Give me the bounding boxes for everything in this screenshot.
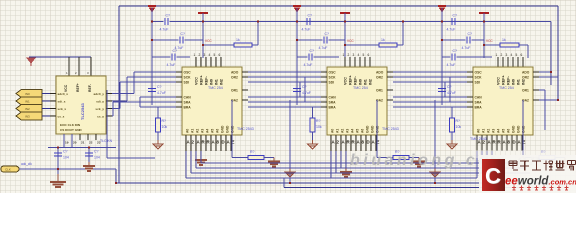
svg-text:5: 5	[516, 53, 518, 57]
svg-text:VCC: VCC	[497, 77, 501, 85]
svg-text:4: 4	[511, 53, 513, 57]
svg-text:TMC 2543: TMC 2543	[382, 127, 399, 131]
svg-text:TMC 254: TMC 254	[208, 86, 223, 90]
svg-text:sdi_x: sdi_x	[58, 100, 66, 104]
svg-text:D: D	[222, 140, 225, 145]
svg-text:22: 22	[89, 141, 93, 145]
svg-text:REF-: REF-	[88, 84, 92, 92]
svg-text:VCC: VCC	[64, 84, 68, 92]
svg-text:2: 2	[348, 53, 350, 57]
svg-text:OR2: OR2	[231, 76, 238, 80]
svg-text:A4: A4	[206, 129, 210, 133]
svg-text:A3: A3	[492, 129, 496, 133]
svg-text:A3: A3	[346, 129, 350, 133]
svg-text:D: D	[513, 140, 516, 145]
svg-text:REF+: REF+	[200, 74, 204, 85]
svg-text:C?: C?	[310, 49, 315, 53]
svg-text:GND: GND	[371, 125, 375, 133]
svg-text:A1: A1	[336, 129, 340, 133]
svg-text:CLK: CLK	[5, 168, 11, 172]
svg-text:1k: 1k	[236, 38, 240, 42]
svg-text:GND: GND	[517, 125, 521, 133]
svg-text:sck_y: sck_y	[95, 107, 104, 111]
svg-text:OR1: OR1	[376, 89, 383, 93]
svg-text:4.7uF: 4.7uF	[447, 91, 456, 95]
svg-text:A5: A5	[211, 129, 215, 133]
svg-text:A6: A6	[361, 129, 365, 133]
svg-text:adc0_y: adc0_y	[94, 92, 105, 96]
svg-text:C?: C?	[308, 14, 313, 18]
svg-text:TMC 254: TMC 254	[353, 86, 368, 90]
svg-text:OSC: OSC	[329, 71, 337, 75]
svg-text:C?: C?	[325, 32, 330, 36]
svg-text:A3: A3	[201, 129, 205, 133]
svg-text:VCC: VCC	[205, 39, 212, 43]
svg-text:21: 21	[81, 141, 85, 145]
svg-text:TMC 2543: TMC 2543	[470, 137, 487, 141]
svg-text:IN1: IN1	[517, 79, 521, 85]
svg-text:3: 3	[506, 53, 508, 57]
svg-text:R?: R?	[162, 119, 167, 123]
svg-text:VCC: VCC	[195, 77, 199, 85]
svg-text:TLC2543: TLC2543	[80, 103, 85, 120]
svg-text:A5: A5	[502, 129, 506, 133]
svg-text:4.7uF: 4.7uF	[447, 28, 456, 32]
svg-text:C?: C?	[63, 150, 68, 154]
svg-text:adc0_x: adc0_x	[58, 92, 69, 96]
svg-text:1: 1	[496, 53, 498, 57]
svg-text:IN0: IN0	[512, 79, 516, 85]
svg-text:C?: C?	[157, 85, 162, 89]
svg-text:C?: C?	[302, 85, 307, 89]
svg-text:1: 1	[194, 53, 196, 57]
svg-text:A2: A2	[196, 129, 200, 133]
svg-text:104: 104	[63, 156, 69, 160]
svg-text:3: 3	[204, 53, 206, 57]
svg-text:D: D	[367, 140, 370, 145]
svg-text:OR2: OR2	[522, 76, 529, 80]
svg-text:IN2: IN2	[522, 79, 526, 85]
svg-text:R?: R?	[250, 150, 255, 154]
svg-text:4.7uF: 4.7uF	[302, 91, 311, 95]
svg-text:EOC CLK DIN: EOC CLK DIN	[60, 123, 81, 127]
svg-text:CAN: CAN	[184, 96, 192, 100]
svg-text:C?: C?	[447, 85, 452, 89]
svg-text:cs_x: cs_x	[58, 115, 65, 119]
svg-text:CAN: CAN	[329, 96, 337, 100]
svg-text:SRA: SRA	[475, 101, 483, 105]
svg-text:6: 6	[521, 53, 523, 57]
svg-text:REF-: REF-	[354, 75, 358, 85]
svg-text:IN2: IN2	[369, 79, 373, 85]
svg-text:1: 1	[343, 53, 345, 57]
svg-text:C?: C?	[468, 32, 473, 36]
svg-text:A0: A0	[186, 129, 190, 133]
svg-text:SRA: SRA	[184, 101, 192, 105]
svg-text:4.7uF: 4.7uF	[157, 91, 166, 95]
svg-text:GND: GND	[366, 125, 370, 133]
svg-text:4.7uF: 4.7uF	[319, 46, 328, 50]
svg-text:GND: GND	[221, 125, 225, 133]
svg-text:TMC 2543: TMC 2543	[237, 127, 254, 131]
svg-text:IN0: IN0	[25, 92, 30, 96]
svg-text:ADO: ADO	[376, 71, 384, 75]
svg-text:REF-: REF-	[507, 75, 511, 85]
svg-text:104: 104	[94, 156, 100, 160]
svg-text:OSC: OSC	[475, 71, 483, 75]
svg-text:REF-: REF-	[205, 75, 209, 85]
svg-text:adc_clk: adc_clk	[21, 162, 32, 166]
svg-text:5: 5	[363, 53, 365, 57]
svg-text:A2: A2	[487, 129, 491, 133]
svg-text:SCK: SCK	[475, 76, 483, 80]
svg-text:A4: A4	[497, 129, 501, 133]
svg-text:1k: 1k	[381, 38, 385, 42]
svg-text:IN1: IN1	[25, 100, 30, 104]
svg-text:4.7uF: 4.7uF	[167, 63, 176, 67]
svg-text:OR2: OR2	[376, 76, 383, 80]
svg-text:4: 4	[358, 53, 360, 57]
svg-text:IN0: IN0	[359, 79, 363, 85]
svg-text:C?: C?	[173, 49, 178, 53]
svg-text:4: 4	[209, 53, 211, 57]
svg-text:sdi_y: sdi_y	[96, 100, 104, 104]
svg-text:4.7uF: 4.7uF	[447, 63, 456, 67]
svg-text:TLC KN: TLC KN	[100, 139, 113, 143]
svg-text:20: 20	[73, 141, 77, 145]
svg-text:C?: C?	[181, 32, 186, 36]
svg-text:6: 6	[368, 53, 370, 57]
svg-text:IN0: IN0	[210, 79, 214, 85]
svg-text:BRA: BRA	[184, 106, 192, 110]
svg-text:CS DOUT GND: CS DOUT GND	[60, 128, 82, 132]
svg-text:SDI: SDI	[184, 81, 190, 85]
svg-text:SDI: SDI	[475, 81, 481, 85]
svg-text:1k: 1k	[502, 38, 506, 42]
svg-text:GND: GND	[512, 125, 516, 133]
svg-text:GND: GND	[226, 125, 230, 133]
svg-text:SRA: SRA	[329, 101, 337, 105]
svg-text:4.7uF: 4.7uF	[304, 63, 313, 67]
svg-text:A1: A1	[191, 129, 195, 133]
svg-text:IN1: IN1	[215, 79, 219, 85]
svg-text:BRA: BRA	[329, 106, 337, 110]
svg-text:SCK: SCK	[184, 76, 192, 80]
svg-text:OR1: OR1	[522, 89, 529, 93]
svg-text:SDI: SDI	[329, 81, 335, 85]
svg-text:REF+: REF+	[349, 74, 353, 85]
svg-text:C: C	[485, 163, 501, 188]
svg-text:IN2: IN2	[220, 79, 224, 85]
svg-text:IN3: IN3	[25, 115, 30, 119]
svg-text:R?: R?	[316, 119, 321, 123]
svg-text:A2: A2	[341, 129, 345, 133]
svg-text:3: 3	[353, 53, 355, 57]
svg-text:VCC: VCC	[347, 39, 354, 43]
svg-text:C?: C?	[453, 14, 458, 18]
svg-text:SCK: SCK	[329, 76, 337, 80]
svg-text:C?: C?	[94, 150, 99, 154]
svg-text:OSC: OSC	[184, 71, 192, 75]
svg-text:A5: A5	[356, 129, 360, 133]
svg-text:A0: A0	[477, 129, 481, 133]
svg-text:sck_x: sck_x	[58, 107, 67, 111]
svg-text:ADO: ADO	[522, 71, 530, 75]
svg-text:VCC: VCC	[344, 77, 348, 85]
svg-text:C?: C?	[453, 49, 458, 53]
svg-text:IN2: IN2	[25, 107, 30, 111]
svg-text:eeworld.com.cn: eeworld.com.cn	[505, 176, 576, 188]
svg-text:A6: A6	[507, 129, 511, 133]
svg-text:REF+: REF+	[76, 83, 80, 92]
svg-text:4.7uF: 4.7uF	[462, 46, 471, 50]
svg-text:CAN: CAN	[475, 96, 483, 100]
svg-text:R?: R?	[456, 119, 461, 123]
svg-text:A1: A1	[482, 129, 486, 133]
svg-text:VCC: VCC	[486, 39, 493, 43]
svg-text:2: 2	[199, 53, 201, 57]
svg-text:19: 19	[65, 141, 69, 145]
svg-text:10k: 10k	[162, 125, 168, 129]
svg-text:OR1: OR1	[231, 89, 238, 93]
svg-text:5: 5	[214, 53, 216, 57]
svg-text:cs_y: cs_y	[97, 115, 104, 119]
svg-text:IN1: IN1	[364, 79, 368, 85]
svg-text:4.7uF: 4.7uF	[160, 28, 169, 32]
svg-text:6: 6	[219, 53, 221, 57]
svg-text:ADO: ADO	[231, 71, 239, 75]
svg-text:2: 2	[501, 53, 503, 57]
svg-text:10k: 10k	[316, 125, 322, 129]
svg-text:C?: C?	[166, 14, 171, 18]
svg-text:TMC 254: TMC 254	[499, 86, 514, 90]
svg-text:A0: A0	[331, 129, 335, 133]
svg-text:REF+: REF+	[502, 74, 506, 85]
svg-text:A4: A4	[351, 129, 355, 133]
svg-text:BRA: BRA	[475, 106, 483, 110]
svg-text:A6: A6	[216, 129, 220, 133]
svg-text:4.7uF: 4.7uF	[302, 28, 311, 32]
svg-text:10k: 10k	[456, 125, 462, 129]
